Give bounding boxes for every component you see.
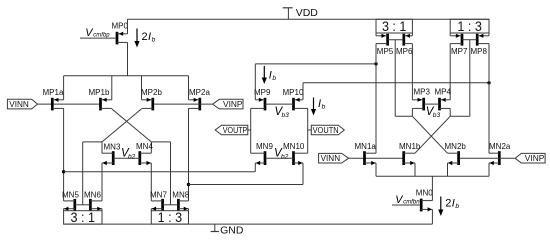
wire4 MP10 source to MP8 drain node xyxy=(303,82,489,84)
transistor MP3 (PMOS) xyxy=(412,88,430,111)
wire node MP8 drain to MN2a drain xyxy=(488,44,490,154)
wire output node VOUTP (MP9 drain to MN9 drain) xyxy=(250,108,252,153)
port VOUTN xyxy=(311,125,344,135)
gate tie MN9/MN10 xyxy=(265,157,294,159)
wire gates MN2b/MN2a to VINP xyxy=(460,157,515,159)
transistor MP9 (PMOS) xyxy=(251,88,271,111)
wire bottom pair common source rail xyxy=(376,175,489,177)
svg-text:MP1b: MP1b xyxy=(89,88,110,97)
svg-text:MP2a: MP2a xyxy=(189,88,210,97)
svg-text:cmfbp: cmfbp xyxy=(93,32,110,38)
current arrow Ib at MP10 xyxy=(311,98,326,116)
svg-text:I: I xyxy=(148,31,151,43)
gate tie MN3/MN4 xyxy=(113,157,140,159)
wire node MP2a drain to MN8 drain xyxy=(188,108,190,200)
junction dot MN9-source wire at left node xyxy=(62,170,65,173)
wire MN3 source down to MN6 drain xyxy=(101,163,103,201)
gate tie MP7/MP8 xyxy=(462,39,477,41)
port VINN (left) xyxy=(7,99,37,109)
wire MP1a source up xyxy=(63,76,65,100)
transistor MN9 (NMOS) xyxy=(251,142,274,165)
wire3 MP9 source to MP5 drain node xyxy=(255,63,376,65)
transistor MP6 (PMOS) xyxy=(396,34,413,56)
svg-text:3 : 1: 3 : 1 xyxy=(71,210,96,225)
power symbol VDD xyxy=(283,7,319,19)
wire MP6 source up to 3:1 box xyxy=(411,33,413,36)
wire MN8 source down to 1:3 box xyxy=(188,209,190,211)
junction dot wire3 at MP5 drain xyxy=(374,62,377,65)
svg-text:1 : 3: 1 : 3 xyxy=(457,19,482,34)
wire MN7 source down to 1:3 box xyxy=(150,209,152,211)
current arrow 2Ib at MN0 xyxy=(438,197,459,217)
wire VOUTN port stub xyxy=(308,129,312,131)
bias label Vb3 at MP3/MP4 xyxy=(426,106,441,119)
junction dot wire4 at MP8 drain xyxy=(487,81,490,84)
transistor MN1a (NMOS) xyxy=(355,142,377,165)
svg-text:MN1b: MN1b xyxy=(399,142,421,151)
wire GND rail xyxy=(64,223,433,225)
gate tie MN5/MN6 xyxy=(75,204,91,206)
wire MN5/MN6 gate riser xyxy=(82,142,84,205)
current mirror ratio box 1:3 (MP7:MP8) xyxy=(450,19,489,34)
wire MN7/MN8 gate riser xyxy=(170,142,172,205)
svg-text:3 : 1: 3 : 1 xyxy=(382,19,407,34)
wire MP1b drain diagonal to node above MN4 xyxy=(112,109,152,142)
transistor MP4 (PMOS) xyxy=(435,88,452,111)
wire MN1b source down xyxy=(414,163,416,176)
svg-text:MP0: MP0 xyxy=(112,21,129,30)
transistor MP5 (PMOS) xyxy=(376,34,394,56)
port VINP (left) xyxy=(213,99,243,109)
wire tail rail connecting pair sources xyxy=(64,75,189,77)
wire MN0 source down to GND rail xyxy=(431,209,433,224)
wire node MP5 drain to MN1a drain xyxy=(375,44,377,154)
wire cross corner to MP5/MP6 gate riser xyxy=(395,115,412,117)
svg-text:b: b xyxy=(272,75,276,82)
wire MP7 drain down to MP4 source xyxy=(449,44,451,100)
current mirror ratio box 1:3 (MN7:MN8) xyxy=(151,210,188,225)
bias label Vb2 at MN3/MN4 xyxy=(121,148,136,161)
wire MP10 source up to wire4 xyxy=(302,83,304,100)
wire corner to MN7/MN8 mirror gates xyxy=(151,141,170,143)
wire MP4 drain diagonal to MN1b drain xyxy=(415,116,450,153)
transistor MP8 (PMOS) xyxy=(471,34,490,56)
svg-text:MN4: MN4 xyxy=(136,142,153,151)
wire VOUTP port stub xyxy=(248,129,251,131)
transistor MP0 (PMOS) xyxy=(112,21,129,44)
wire MP3 drain down to cross corner xyxy=(411,108,413,116)
svg-text:VINN: VINN xyxy=(9,99,29,109)
wire MP5/MP6 gate riser down to cross node xyxy=(394,40,396,117)
bias label Vcmfbp xyxy=(85,27,110,39)
svg-text:MP8: MP8 xyxy=(471,47,488,56)
svg-text:GND: GND xyxy=(220,224,244,236)
wire MN4 source down to MN7 drain xyxy=(150,163,152,201)
wire MN10 source rail (wire2) xyxy=(189,184,304,186)
wire MP6 drain down to MP3 source xyxy=(411,44,413,100)
transistor MN5 (NMOS) xyxy=(62,191,79,211)
svg-text:MP1a: MP1a xyxy=(43,88,64,97)
wire VINN to gates of MN1a/MN1b xyxy=(349,157,403,159)
port VINP (right) xyxy=(515,153,545,163)
svg-text:MP6: MP6 xyxy=(396,47,413,56)
transistor MP7 (PMOS) xyxy=(450,34,468,56)
wire MN4 drain up to cross node xyxy=(150,142,152,153)
svg-text:b2: b2 xyxy=(281,153,289,160)
svg-text:2: 2 xyxy=(445,198,451,210)
gate tie MP9/MP10 xyxy=(265,103,294,105)
svg-text:b3: b3 xyxy=(433,112,441,119)
wire MN0 drain up to source rail xyxy=(431,176,433,200)
wire MN1a source down xyxy=(375,163,377,176)
wire VDD rail xyxy=(128,18,490,20)
wire MN3 drain up to cross node xyxy=(101,142,103,153)
svg-text:b3: b3 xyxy=(282,112,290,119)
transistor MN7 (NMOS) xyxy=(150,191,167,211)
wire output node VOUTN (MP10 drain to MN10 drain) xyxy=(307,108,309,153)
svg-text:b: b xyxy=(152,37,156,44)
svg-text:MP3: MP3 xyxy=(414,88,431,97)
svg-text:VINP: VINP xyxy=(223,99,243,109)
svg-text:VINN: VINN xyxy=(321,153,341,163)
wire MN2b source down xyxy=(447,163,449,176)
bias label Vcmfbn xyxy=(395,194,420,206)
transistor MN6 (NMOS) xyxy=(84,191,102,211)
svg-text:I: I xyxy=(452,198,455,210)
svg-text:MN6: MN6 xyxy=(84,191,101,200)
svg-text:MP7: MP7 xyxy=(451,47,468,56)
wire MP2a source up xyxy=(188,76,190,100)
wire corner to MN5/MN6 mirror gates xyxy=(83,141,102,143)
svg-text:I: I xyxy=(269,70,272,82)
port VINN (right) xyxy=(319,153,349,163)
transistor MP2a (PMOS) xyxy=(189,88,211,111)
svg-text:MN8: MN8 xyxy=(172,191,189,200)
gate tie MP5/MP6 xyxy=(388,39,404,41)
wire MN5 source down to 3:1 box xyxy=(63,209,65,211)
transistor MN2b (NMOS) xyxy=(445,142,467,165)
current arrow Ib at MP9 xyxy=(262,66,277,84)
transistor MP1b (PMOS) xyxy=(89,88,112,111)
svg-text:VOUTP: VOUTP xyxy=(223,125,248,135)
wire MN9 source down to wire1 xyxy=(254,163,256,172)
wire MP0 source up to VDD rail xyxy=(127,19,129,34)
wire MP5 source up to 3:1 box xyxy=(375,33,377,36)
transistor MN2a (NMOS) xyxy=(489,142,511,165)
svg-text:MN2b: MN2b xyxy=(445,142,467,151)
svg-text:MP4: MP4 xyxy=(435,88,452,97)
wire MP7/MP8 gate riser down to cross node xyxy=(469,40,471,117)
svg-text:MN3: MN3 xyxy=(104,142,121,151)
wire node MP1a drain to MN5 drain xyxy=(63,108,65,200)
svg-text:MP10: MP10 xyxy=(283,88,304,97)
bias label Vb2 at MN9/MN10 xyxy=(274,148,289,161)
transistor MN1b (NMOS) xyxy=(399,142,421,165)
svg-text:b: b xyxy=(322,104,326,111)
svg-text:VDD: VDD xyxy=(296,7,319,19)
current mirror ratio box 3:1 (MN5:MN6) xyxy=(64,210,102,225)
svg-text:MP5: MP5 xyxy=(377,47,394,56)
svg-text:MN5: MN5 xyxy=(62,191,79,200)
wire Vcmfbn gate lead to MN0 xyxy=(392,204,420,206)
wire MN9 source rail (wire1) xyxy=(64,171,256,173)
wire MN10 source down to wire2 xyxy=(302,163,304,185)
svg-text:MN7: MN7 xyxy=(150,191,167,200)
wire MP4 drain down to cross corner xyxy=(449,108,451,116)
wire MP0 drain down to tail rail xyxy=(127,42,129,75)
transistor MN8 (NMOS) xyxy=(172,191,189,211)
wire Vcmfbp gate lead to MP0 xyxy=(80,37,116,39)
gate tie MP3/MP4 xyxy=(424,103,440,105)
wire cross corner to MP7/MP8 gate riser xyxy=(450,115,470,117)
wire VINN to gates of MP1a/MP1b xyxy=(38,103,100,105)
wire MP7 source up to 1:3 box xyxy=(449,33,451,36)
svg-text:b2: b2 xyxy=(128,153,136,160)
wire MP8 source up to 1:3 box xyxy=(488,33,490,36)
svg-text:MN2a: MN2a xyxy=(489,142,511,151)
gate tie MN7/MN8 xyxy=(163,204,179,206)
port VOUTP xyxy=(215,125,248,135)
current arrow 2Ib at MP0 xyxy=(134,29,155,48)
wire MP1b source up xyxy=(111,76,113,100)
transistor MP10 (PMOS) xyxy=(283,88,308,111)
wire MP3 drain diagonal to MN2b drain xyxy=(412,116,447,153)
junction dot MN10-source wire at right node xyxy=(187,183,190,186)
svg-text:MP9: MP9 xyxy=(254,88,271,97)
ground symbol GND xyxy=(211,224,244,236)
svg-text:MN9: MN9 xyxy=(256,142,273,151)
svg-text:1 : 3: 1 : 3 xyxy=(158,210,183,225)
transistor MN10 (NMOS) xyxy=(283,142,308,165)
current mirror ratio box 3:1 (MP5:MP6) xyxy=(376,19,412,34)
transistor MN4 (NMOS) xyxy=(136,142,153,165)
wire MP9 source up to wire3 xyxy=(254,64,256,100)
wire MN6 source down to 3:1 box xyxy=(101,209,103,211)
transistor MN0 (NMOS) xyxy=(416,189,433,212)
svg-text:b: b xyxy=(455,203,459,210)
transistor MN3 (NMOS) xyxy=(102,142,121,165)
wire MP2b source up xyxy=(141,76,143,100)
transistor MP2b (PMOS) xyxy=(141,88,162,111)
wire MN2a source down xyxy=(488,163,490,176)
transistor MP1a (PMOS) xyxy=(43,88,64,111)
svg-text:MN1a: MN1a xyxy=(355,142,377,151)
svg-text:VINP: VINP xyxy=(525,153,545,163)
svg-text:MN0: MN0 xyxy=(416,189,433,198)
wire gates MP2b/MP2a to VINP xyxy=(154,103,212,105)
svg-text:MN10: MN10 xyxy=(283,142,305,151)
bias label Vb3 at MP9/MP10 xyxy=(275,106,290,119)
svg-text:I: I xyxy=(318,98,321,110)
svg-text:MP2b: MP2b xyxy=(141,88,162,97)
wire MP2b drain diagonal to node above MN3 xyxy=(102,109,142,142)
svg-text:2: 2 xyxy=(142,31,148,43)
svg-text:VOUTN: VOUTN xyxy=(313,125,339,135)
